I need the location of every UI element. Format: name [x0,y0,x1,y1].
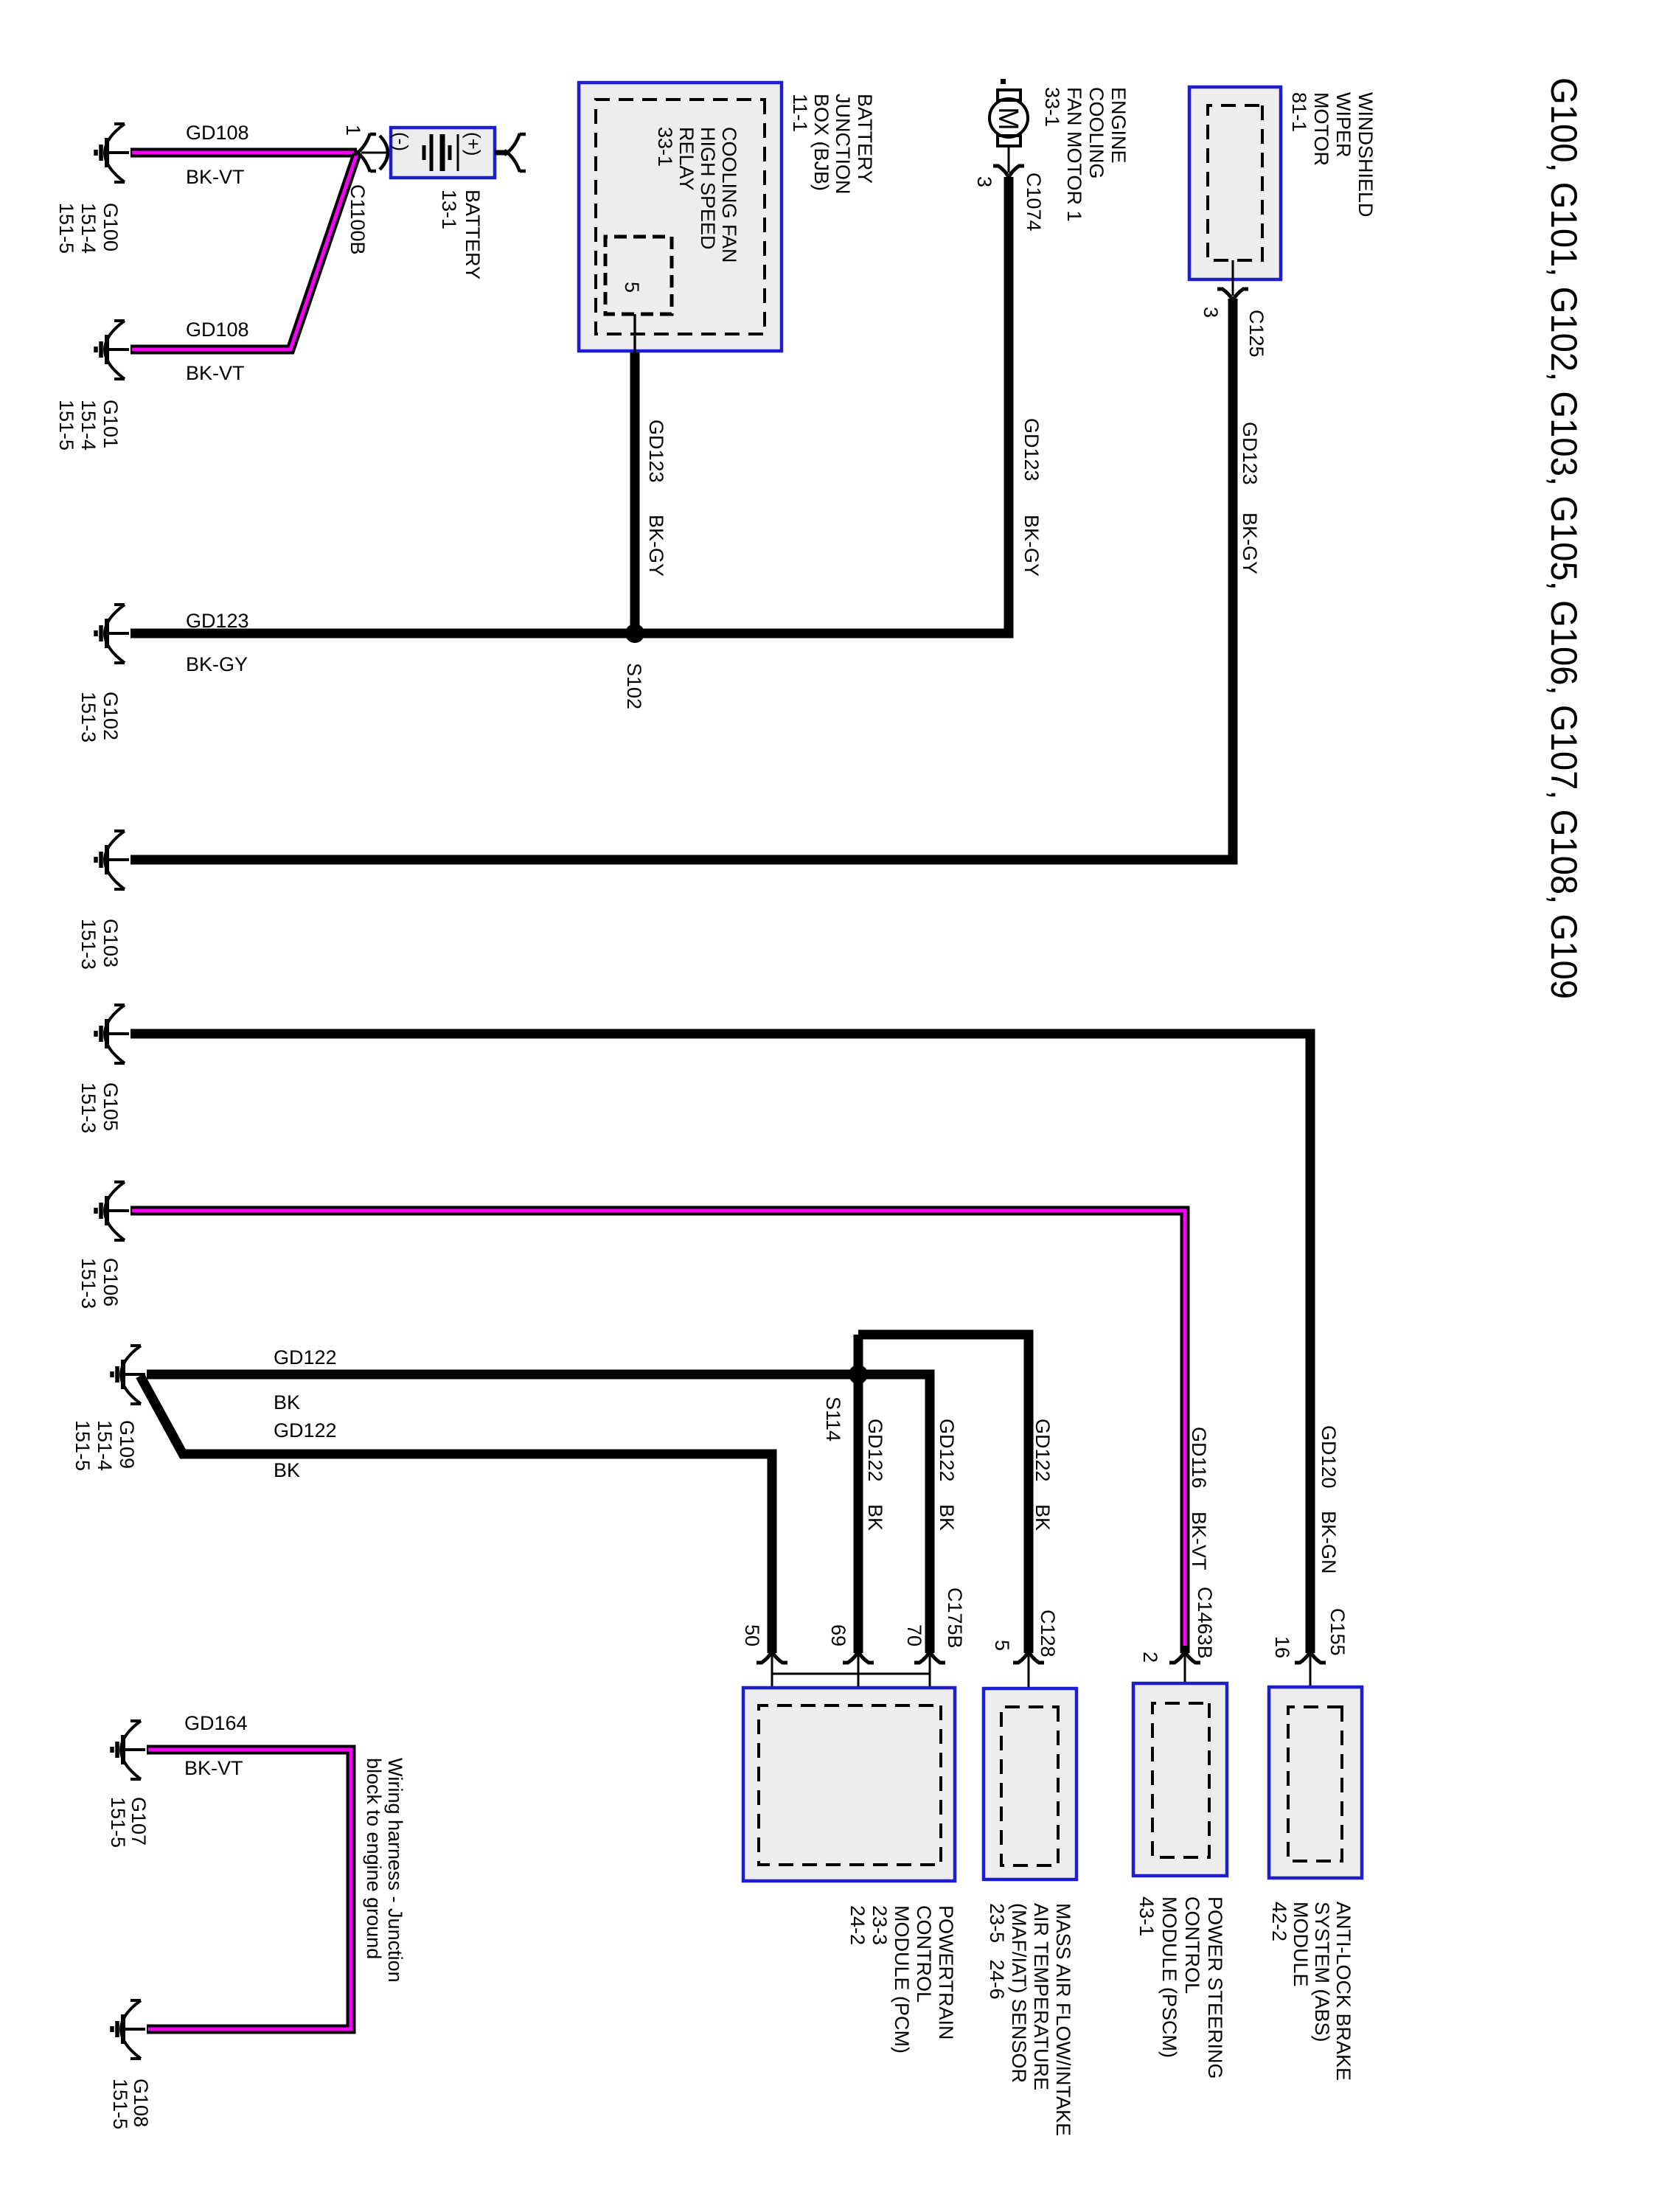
wire GD122 S114 to MAF pin 5 [858,1335,1029,1653]
ground G103 [96,831,129,889]
svg-text:81-1: 81-1 [1288,92,1310,132]
svg-text:69: 69 [827,1624,849,1646]
svg-text:C128: C128 [1037,1610,1059,1658]
svg-text:POWER STEERING: POWER STEERING [1204,1896,1226,2079]
svg-text:AIR TEMPERATURE: AIR TEMPERATURE [1030,1903,1052,2090]
svg-text:G100: G100 [100,203,122,251]
svg-text:BK-VT: BK-VT [184,1757,243,1779]
svg-text:33-1: 33-1 [654,127,676,167]
svg-text:C1074: C1074 [1023,173,1045,232]
svg-text:BK: BK [936,1504,958,1531]
wire GD122 G109 to S114 [147,1370,858,1380]
svg-text:FAN MOTOR 1: FAN MOTOR 1 [1063,87,1085,222]
svg-text:151-4: 151-4 [77,203,100,254]
svg-text:HIGH SPEED: HIGH SPEED [697,127,719,250]
svg-text:(MAF/IAT) SENSOR: (MAF/IAT) SENSOR [1008,1903,1030,2083]
svg-text:151-4: 151-4 [77,400,100,451]
svg-text:GD123: GD123 [645,420,667,483]
battery cell plates [422,145,426,160]
PCM box [743,1688,955,1881]
svg-text:151-5: 151-5 [107,1797,129,1848]
svg-text:G107: G107 [128,1797,150,1846]
svg-text:S114: S114 [822,1397,844,1441]
MAF box [984,1688,1077,1879]
svg-text:GD120: GD120 [1318,1425,1340,1489]
ground G106 [96,1182,129,1240]
wire GD122 S114 to PCM pin 69 [854,1335,863,1653]
svg-text:BK-GY: BK-GY [1020,515,1043,577]
svg-text:WINDSHIELD: WINDSHIELD [1354,92,1377,218]
connector C175B pin 70 [914,1650,945,1663]
windshield wiper motor [1189,87,1281,279]
ground G108 [112,2000,145,2059]
svg-text:151-3: 151-3 [77,919,100,970]
splice S102 [625,624,644,643]
svg-text:GD123: GD123 [186,610,249,632]
svg-text:MODULE (PCM): MODULE (PCM) [891,1905,913,2053]
svg-text:3: 3 [1200,307,1222,318]
svg-text:50: 50 [741,1624,763,1646]
svg-text:BK-VT: BK-VT [1188,1512,1210,1571]
connector C128 pin 5 [1013,1650,1044,1663]
svg-text:G101: G101 [100,400,122,448]
svg-text:C155: C155 [1326,1608,1349,1656]
svg-text:151-5: 151-5 [55,203,77,254]
svg-text:GD108: GD108 [186,122,249,144]
connector C125 pin 3 [1217,289,1248,302]
ground G101 [96,321,129,379]
svg-text:BK: BK [864,1504,886,1531]
svg-text:MODULE: MODULE [1290,1902,1312,1987]
wire GD123 wiper to G103 [131,299,1233,860]
svg-text:G106: G106 [100,1258,122,1307]
ground G100 [96,124,129,182]
relay pin 5 box [605,237,672,314]
svg-text:23-5 24-6: 23-5 24-6 [986,1903,1008,2000]
svg-text:151-4: 151-4 [94,1420,116,1471]
svg-text:GD123: GD123 [1239,422,1261,485]
svg-text:2: 2 [1139,1652,1161,1663]
svg-text:G108: G108 [130,2079,152,2127]
svg-text:MOTOR: MOTOR [1310,92,1332,166]
svg-text:151-5: 151-5 [109,2079,131,2129]
svg-text:70: 70 [903,1624,925,1646]
svg-text:BK: BK [274,1391,300,1413]
svg-text:151-3: 151-3 [77,1258,100,1309]
svg-text:COOLING FAN: COOLING FAN [718,127,740,263]
svg-text:24-2: 24-2 [846,1905,869,1945]
battery-side chevron [380,136,388,170]
svg-text:POWERTRAIN: POWERTRAIN [935,1905,957,2040]
svg-text:C175B: C175B [944,1587,966,1649]
wire GD164 G107 to G108 [147,1750,351,2029]
svg-text:WIPER: WIPER [1332,92,1354,158]
connector C1463B pin 2 [1169,1650,1200,1663]
ground G107 [112,1721,145,1779]
svg-text:43-1: 43-1 [1135,1896,1158,1936]
ABS box [1269,1687,1362,1878]
svg-text:BATTERY: BATTERY [854,94,876,184]
svg-text:GD122: GD122 [1032,1419,1054,1482]
wire GD123 G102 -> S102 -> corner to motor [131,177,1009,633]
svg-text:G103: G103 [100,919,122,967]
svg-text:BK-GN: BK-GN [1318,1511,1340,1574]
svg-text:GD116: GD116 [1188,1427,1210,1489]
svg-text:JUNCTION: JUNCTION [832,94,854,195]
svg-text:COOLING: COOLING [1085,87,1107,179]
battery top connector [495,150,508,156]
connector C175B tie line [772,1673,930,1675]
ground G102 [96,605,129,663]
svg-text:C1463B: C1463B [1194,1587,1216,1659]
svg-text:BK: BK [1032,1504,1054,1531]
svg-text:GD122: GD122 [936,1419,958,1482]
svg-text:S102: S102 [623,663,645,709]
svg-text:11-1: 11-1 [789,94,811,132]
svg-text:G105: G105 [100,1082,122,1131]
svg-text:151-5: 151-5 [72,1420,94,1471]
svg-text:G102: G102 [100,692,122,740]
svg-text:BK-GY: BK-GY [645,515,667,577]
svg-text:5: 5 [621,282,643,293]
svg-text:BATTERY: BATTERY [462,189,484,279]
svg-text:BOX (BJB): BOX (BJB) [810,94,832,191]
svg-text:SYSTEM (ABS): SYSTEM (ABS) [1311,1902,1333,2042]
svg-text:GD122: GD122 [864,1419,886,1482]
connector C1074 pin 3 [993,166,1024,178]
connector C175B pin 50 [757,1650,787,1663]
svg-text:151-5: 151-5 [55,400,77,451]
svg-text:block to engine ground: block to engine ground [363,1758,385,1959]
svg-text:13-1: 13-1 [438,189,460,229]
svg-text:C1100B: C1100B [347,184,369,255]
svg-text:3: 3 [973,176,995,187]
wire GD122 S114 to PCM pin 70 [858,1374,930,1653]
svg-text:G109: G109 [116,1420,138,1469]
svg-text:5: 5 [991,1640,1013,1651]
PSCM box [1133,1683,1227,1876]
svg-text:CONTROL: CONTROL [1181,1896,1203,1994]
svg-text:ENGINE: ENGINE [1107,87,1130,164]
svg-text:1: 1 [342,125,364,136]
ground G109 [112,1346,145,1404]
wire GD116 G106 to PSCM [131,1211,1185,1653]
svg-text:MASS AIR FLOW/INTAKE: MASS AIR FLOW/INTAKE [1052,1903,1074,2136]
svg-text:Wiring harness - Junction: Wiring harness - Junction [384,1758,406,1983]
splice S114 [849,1365,868,1384]
svg-text:G100, G101, G102, G103, G105,: G100, G101, G102, G103, G105, G106, G107… [1543,77,1585,999]
svg-text:GD164: GD164 [184,1712,248,1734]
svg-text:BK: BK [274,1459,300,1481]
connector C175B pin 69 [843,1650,874,1663]
battery junction box BJB [579,83,782,351]
svg-text:151-3: 151-3 [77,692,100,742]
svg-text:BK-GY: BK-GY [1239,512,1261,574]
svg-text:GD122: GD122 [274,1419,337,1441]
battery B [391,128,495,178]
svg-text:GD122: GD122 [274,1346,337,1368]
wire GD122 G109 to PCM pin 50 [140,1376,772,1653]
svg-text:GD108: GD108 [186,319,249,341]
svg-text:MODULE (PSCM): MODULE (PSCM) [1158,1896,1180,2058]
svg-text:M: M [992,107,1023,131]
svg-text:GD123: GD123 [1020,418,1043,481]
svg-text:42-2: 42-2 [1268,1902,1290,1941]
wire GD108 G100 to junction 1 [131,148,357,158]
svg-text:(+): (+) [462,132,484,156]
svg-text:BK-VT: BK-VT [186,362,245,384]
svg-text:151-3: 151-3 [77,1082,100,1133]
svg-text:CONTROL: CONTROL [913,1905,935,2003]
svg-text:RELAY: RELAY [675,127,698,191]
svg-text:23-3: 23-3 [869,1905,891,1945]
svg-text:33-1: 33-1 [1041,87,1063,127]
svg-text:(-): (-) [390,132,412,151]
svg-text:C125: C125 [1245,310,1267,358]
svg-text:BK-GY: BK-GY [186,653,248,675]
cooling fan high speed relay dashed box [596,100,765,334]
svg-text:ANTI-LOCK BRAKE: ANTI-LOCK BRAKE [1332,1902,1354,2081]
wire GD108 G101 to junction 1 [131,154,357,349]
wire GD120 G105 to ABS [131,1034,1310,1653]
svg-text:16: 16 [1271,1636,1293,1658]
svg-text:BK-VT: BK-VT [186,166,245,188]
wire GD123 relay to S102 [630,351,640,639]
connector C155 pin 16 [1295,1650,1326,1663]
ground G105 [96,1005,129,1063]
